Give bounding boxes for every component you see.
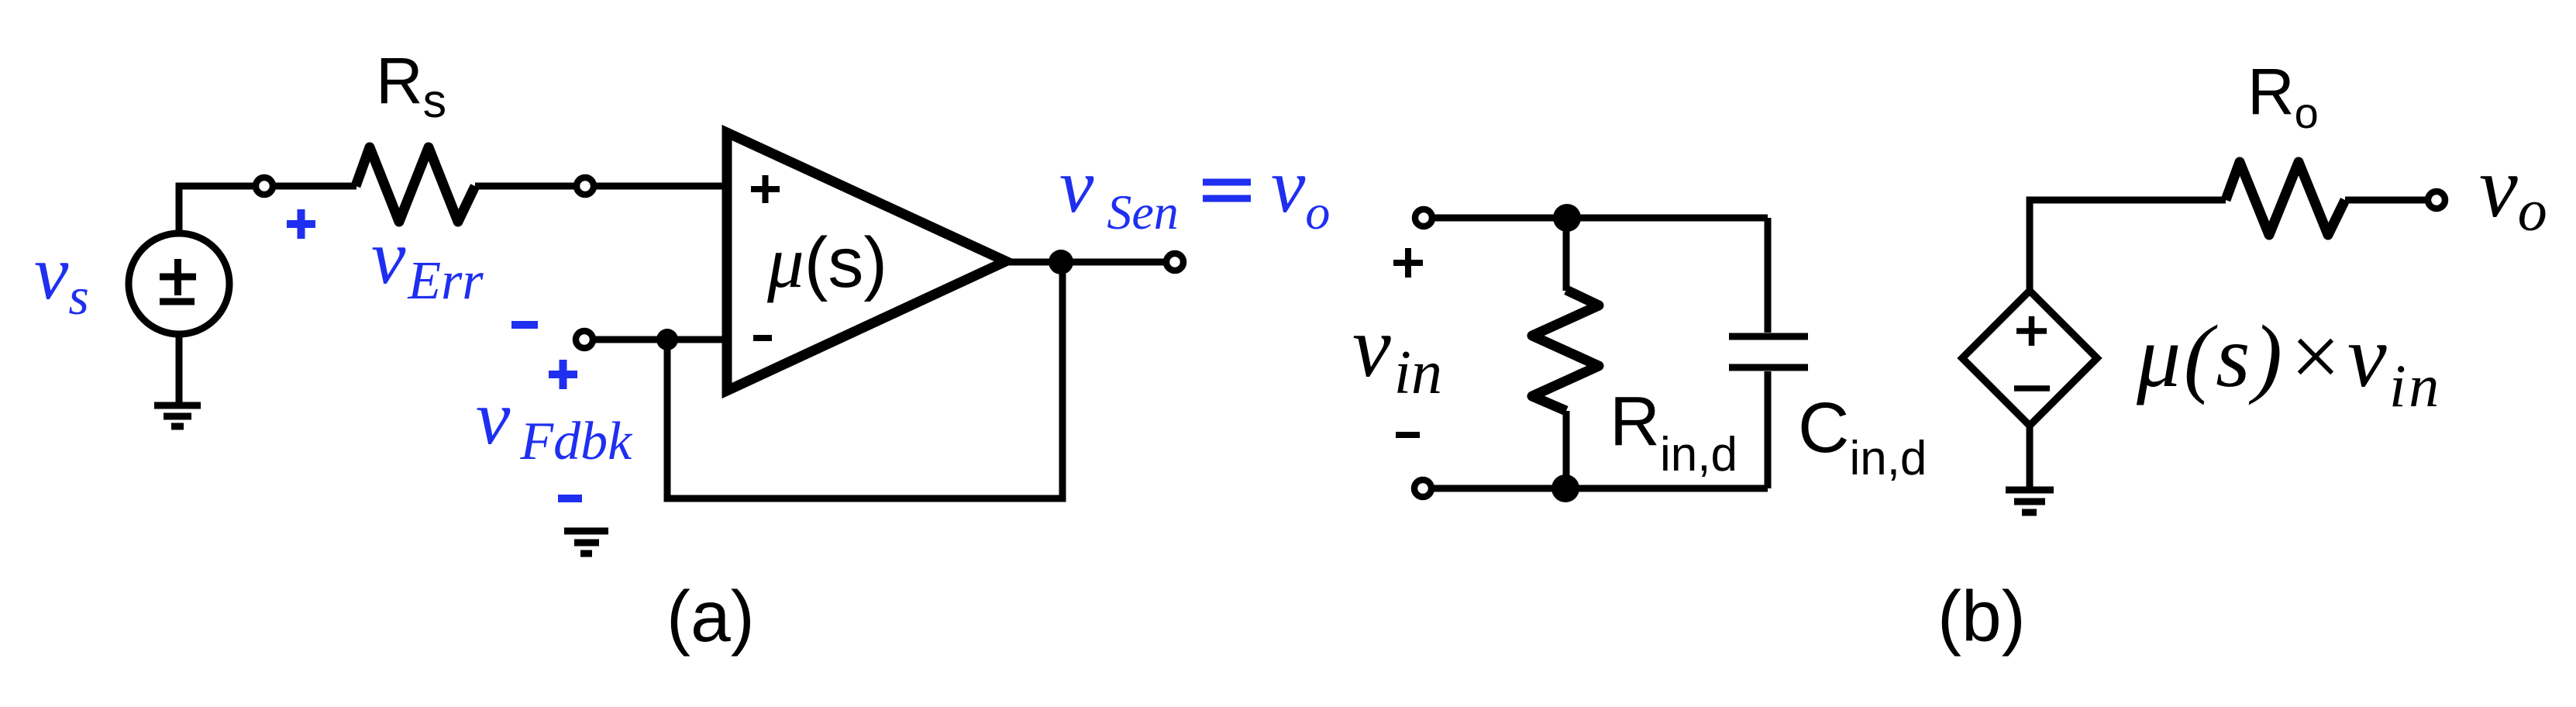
capacitor wire top	[1765, 218, 1772, 333]
resistor Rs	[356, 147, 475, 222]
svg-text:(a): (a)	[666, 576, 755, 657]
label plus at vFdbk	[549, 360, 577, 389]
diamond minus marker	[2014, 385, 2050, 391]
node terminal vo	[2428, 191, 2445, 209]
node terminal vin minus	[1414, 480, 1431, 497]
dependent source diamond	[1962, 291, 2097, 426]
label minus above fdbk terminal	[511, 321, 538, 329]
voltage source Vs	[129, 233, 229, 334]
node terminal plus-input	[577, 178, 594, 195]
junction dot top of Rin	[1553, 204, 1581, 232]
wire terminal to op-amp minus input	[594, 336, 727, 343]
op-amp minus input marker	[753, 335, 772, 341]
node terminal vin plus	[1415, 209, 1432, 226]
plus-minus inside source	[160, 259, 196, 302]
node terminal minus-input	[576, 331, 593, 348]
label minus at vin port	[1396, 432, 1420, 438]
junction dot feedback node	[656, 329, 678, 350]
label plus at vErr	[287, 209, 315, 239]
capacitor Cin,d	[1729, 336, 1808, 367]
ground under diamond	[2006, 426, 2054, 512]
op-amp U1	[727, 133, 1006, 391]
junction dot bottom of Rin	[1551, 474, 1579, 502]
wire terminal to op-amp plus input	[594, 183, 727, 190]
wire diamond to Ro	[2030, 200, 2226, 291]
output wire	[1006, 259, 1166, 266]
svg-text:(b): (b)	[1937, 576, 2026, 657]
ground reference under vFdbk	[564, 531, 608, 554]
wire resistor to terminal	[475, 183, 576, 190]
label plus at vin port	[1393, 248, 1423, 278]
feedback wire	[667, 262, 1062, 498]
wire terminal to resistor	[274, 183, 356, 190]
svg-text:μ(s): μ(s)	[766, 221, 887, 303]
wire Ro to output terminal	[2345, 197, 2427, 204]
resistor Rin,d	[1532, 218, 1599, 488]
diamond plus marker	[2016, 316, 2047, 346]
node terminal output	[1166, 253, 1183, 271]
top wire vin	[1433, 215, 1768, 222]
wire source top to node	[179, 186, 255, 233]
bottom wire vin	[1432, 485, 1768, 492]
capacitor wire bottom	[1765, 371, 1772, 488]
label minus below vFdbk	[558, 495, 582, 502]
ground under source	[154, 334, 201, 426]
label equals sign	[1203, 182, 1251, 198]
op-amp plus input marker	[751, 175, 780, 203]
node terminal after source	[256, 178, 273, 195]
resistor Ro	[2226, 162, 2345, 235]
junction dot output	[1049, 250, 1073, 274]
